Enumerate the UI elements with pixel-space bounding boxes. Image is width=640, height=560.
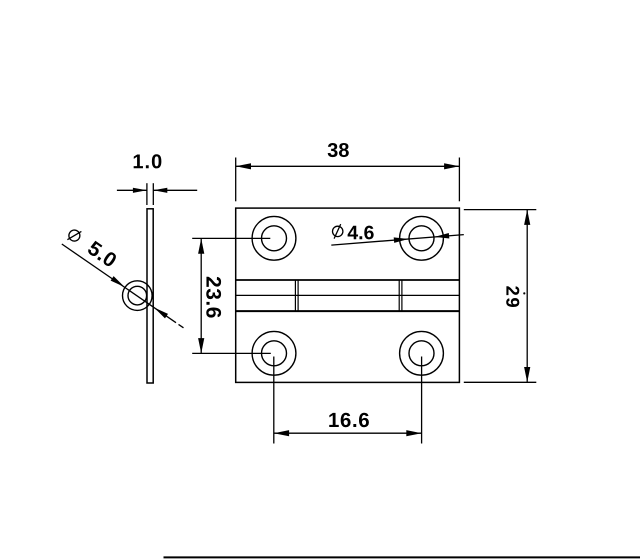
hole bottom-left outer	[252, 331, 296, 375]
front view outline rectangle	[236, 208, 460, 382]
diameter 4.6 symbol	[333, 226, 343, 236]
dimension 38 extension line right	[458, 158, 460, 202]
dimension 16.6 extension line right	[421, 357, 423, 444]
dimension 38 extension line left	[235, 158, 237, 202]
dimension 1.0 line left segment	[117, 189, 147, 191]
knuckle band top line	[236, 279, 460, 281]
diameter 5.0 leader line	[62, 244, 176, 323]
dimension 29 arrow top	[524, 210, 530, 225]
diameter 5.0 symbol	[66, 226, 83, 244]
dimension 23.6 arrow top	[198, 238, 204, 253]
diameter 5.0 leader dash continuation	[179, 324, 184, 327]
dimension 1.0 line right segment	[153, 189, 197, 191]
hole top-left outer	[252, 216, 296, 260]
dimension 29 line	[526, 210, 528, 383]
hole top-right inner	[409, 226, 434, 251]
hole top-left inner	[262, 226, 287, 251]
knuckle divider left pair	[294, 280, 296, 311]
dimension 16.6 arrow right	[406, 430, 421, 436]
dimension 38 arrow right	[444, 163, 459, 169]
diameter 5.0 arrow lower	[154, 308, 168, 319]
dimension 23.6 extension line bottom	[192, 352, 271, 354]
side view plate (hinge leaf edge-on)	[147, 209, 153, 383]
dimension 1.0 extension line right	[152, 183, 154, 205]
diameter 4.6 leader line	[331, 235, 464, 246]
dimension 38 arrow left	[236, 163, 251, 169]
diameter 4.6 arrow left	[394, 237, 409, 243]
diameter 4.6 arrow right	[435, 233, 450, 239]
dimension 23.6 line	[200, 238, 202, 353]
dimension 29 extension line top	[464, 209, 537, 211]
dimension 1.0 extension line left	[146, 183, 148, 205]
diameter 4.6 label	[348, 226, 374, 240]
hole bottom-left inner	[262, 341, 287, 366]
knuckle divider right pair	[398, 280, 400, 311]
dimension 23.6 extension line top	[192, 237, 270, 239]
dimension 38 label	[328, 143, 349, 157]
dimension 29 arrow bottom	[524, 367, 530, 382]
dimension 23.6 arrow bottom	[198, 338, 204, 353]
dimension 38 line	[236, 165, 460, 167]
dimension 16.6 extension line left	[273, 357, 275, 444]
dimension 23.6 label	[206, 277, 221, 318]
side view knuckle outer circle	[123, 281, 153, 311]
hole bottom-right inner	[409, 341, 434, 366]
dimension 16.6 arrow left	[274, 430, 289, 436]
hole top-right outer	[400, 216, 444, 260]
hole bottom-right outer	[400, 331, 444, 375]
dimension 1.0 arrow right	[153, 188, 167, 193]
knuckle band middle line	[236, 294, 460, 296]
diameter 5.0 label	[88, 241, 116, 266]
dimension 16.6 line	[274, 432, 422, 434]
dimension 29 extension line bottom	[464, 381, 537, 383]
side view pin inner circle	[128, 286, 147, 305]
speck near 29	[523, 292, 525, 294]
dimension 1.0 arrow left	[133, 188, 147, 193]
diameter 5.0 arrow upper	[111, 276, 125, 287]
bottom border line	[164, 556, 640, 558]
knuckle band bottom line	[236, 310, 460, 312]
dimension 16.6 label	[329, 413, 369, 428]
dimension 29 label	[506, 286, 519, 307]
dimension 1.0 label	[134, 154, 162, 168]
